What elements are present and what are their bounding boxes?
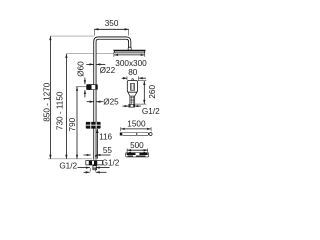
svg-text:Ø60: Ø60 — [76, 61, 85, 77]
svg-text:Ø25: Ø25 — [103, 98, 119, 107]
svg-text:55: 55 — [103, 146, 113, 155]
svg-text:350: 350 — [105, 19, 119, 28]
svg-text:G1/2: G1/2 — [59, 162, 77, 171]
svg-text:500: 500 — [130, 141, 144, 150]
svg-text:G1/2: G1/2 — [102, 158, 120, 167]
svg-text:850 - 1270: 850 - 1270 — [42, 82, 51, 122]
svg-text:116: 116 — [99, 132, 112, 141]
svg-text:80: 80 — [128, 68, 138, 77]
svg-text:790: 790 — [68, 117, 77, 131]
svg-text:300x300: 300x300 — [115, 59, 147, 68]
svg-text:730 - 1150: 730 - 1150 — [56, 91, 65, 130]
svg-text:G1/2: G1/2 — [142, 107, 160, 116]
svg-text:1500: 1500 — [127, 120, 146, 129]
svg-text:Ø22: Ø22 — [100, 66, 116, 75]
svg-text:260: 260 — [148, 85, 157, 99]
